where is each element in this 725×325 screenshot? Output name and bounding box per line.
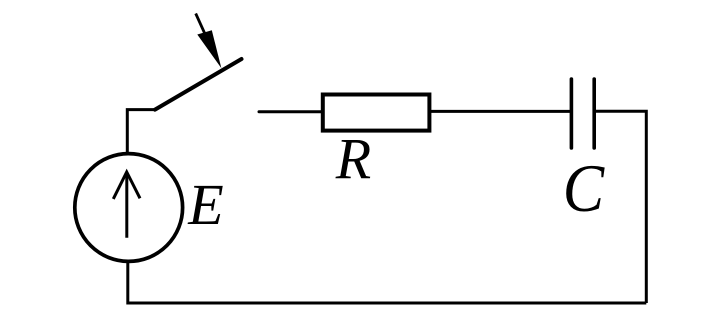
wire (top lead from source to switch pivot) [127,110,155,153]
resistor R body [323,95,430,131]
svg-text:R: R [335,126,371,191]
source E arrow shaft [125,173,128,238]
source E circle [75,154,183,262]
switch actuation arrowhead [197,30,221,68]
source E arrowhead (open) [113,172,140,199]
switch actuation arrow shaft [196,14,205,35]
switch S1 blade (open) [155,59,242,110]
wire (resistor to capacitor) [431,110,570,113]
wire (capacitor to top-right corner and down right side) [596,111,646,303]
wire (switch right contact to resistor) [259,110,322,113]
wire (bottom return) [128,260,647,303]
capacitor C right plate [592,79,596,148]
svg-text:E: E [187,172,223,237]
svg-text:C: C [563,152,605,227]
capacitor C left plate [570,79,574,148]
